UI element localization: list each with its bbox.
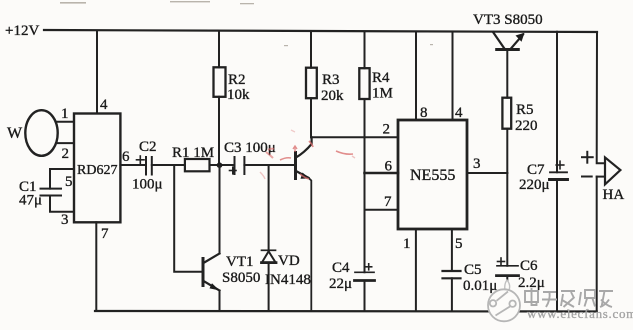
- wire: NE555 pin3 lead: [467, 172, 507, 174]
- +12V supply rail: [44, 30, 597, 32]
- wire: rail to R3: [310, 32, 312, 68]
- svg-text:7: 7: [384, 194, 392, 210]
- svg-text:C4: C4: [332, 260, 350, 276]
- svg-text:47μ: 47μ: [19, 193, 42, 209]
- svg-text:C7: C7: [527, 162, 545, 178]
- svg-text:VD: VD: [278, 253, 300, 269]
- plus mark HA: [582, 156, 593, 158]
- transistor VT2 (no label): [294, 153, 297, 179]
- resistor R2 10k: [214, 67, 226, 97]
- svg-text:R1 1M: R1 1M: [172, 145, 214, 161]
- speaker HA: [597, 176, 605, 178]
- svg-text:7: 7: [101, 226, 109, 242]
- watermark logo circle: [488, 280, 520, 321]
- resistor R4 1M: [359, 68, 369, 99]
- red annotation marks near VT2: [260, 130, 355, 179]
- plus mark C4: [366, 266, 372, 268]
- svg-text:1M: 1M: [372, 86, 393, 102]
- svg-text:+12V: +12V: [5, 23, 39, 39]
- transistor VT1 S8050: [202, 259, 205, 286]
- wire: R2 to signal junction: [218, 97, 220, 165]
- node junction R1/R2/C3/VT1: [217, 162, 223, 168]
- svg-text:IN4148: IN4148: [265, 272, 311, 288]
- scan specks: [60, 1, 433, 46]
- svg-text:4: 4: [100, 97, 108, 113]
- svg-text:HA: HA: [603, 187, 625, 203]
- wire: rail to R4: [364, 32, 366, 69]
- svg-text:R4: R4: [372, 70, 390, 86]
- resistor R3 20k: [306, 68, 317, 99]
- capacitor C6 2.2u: [497, 265, 518, 267]
- svg-text:1: 1: [61, 106, 69, 122]
- svg-text:W: W: [7, 125, 23, 142]
- wire: rail to C7: [556, 32, 558, 173]
- plus mark C3: [230, 170, 237, 172]
- wire: tap down to VT1 base: [174, 165, 201, 272]
- IC U2 NE555: [398, 120, 467, 229]
- watermark text elecfans: [525, 288, 613, 307]
- svg-text:22μ: 22μ: [329, 276, 352, 292]
- svg-text:100μ: 100μ: [132, 177, 163, 193]
- wire: NE555 pin1 to ground: [415, 229, 417, 311]
- microphone W: [25, 110, 57, 156]
- plus mark C7: [556, 164, 564, 166]
- svg-text:NE555: NE555: [410, 167, 455, 184]
- wire: NE555 pin5 to C5: [451, 229, 453, 271]
- svg-text:5: 5: [455, 236, 463, 252]
- svg-text:R5: R5: [516, 102, 534, 118]
- svg-text:5: 5: [65, 174, 73, 190]
- IC U1 RD627: [74, 114, 120, 223]
- svg-text:220: 220: [515, 118, 538, 134]
- svg-text:RD627: RD627: [77, 163, 117, 178]
- svg-text:6: 6: [385, 159, 393, 175]
- capacitor C2 100u: [145, 157, 147, 175]
- wire: RD627 pin6 to C2: [120, 164, 146, 166]
- svg-text:20k: 20k: [321, 88, 344, 104]
- svg-text:2: 2: [383, 122, 391, 138]
- svg-text:10k: 10k: [227, 87, 250, 103]
- transistor VT3 S8050: [493, 32, 504, 48]
- svg-text:8: 8: [420, 105, 428, 121]
- wire: rail to NE555 pin4: [452, 32, 454, 120]
- svg-text:R3: R3: [322, 72, 340, 88]
- svg-text:220μ: 220μ: [519, 177, 550, 193]
- svg-text:C6: C6: [520, 258, 538, 274]
- svg-text:C5: C5: [464, 262, 482, 278]
- svg-text:R2: R2: [228, 72, 246, 88]
- svg-text:0.01μ: 0.01μ: [463, 278, 497, 294]
- wire: rail to HA plus: [597, 32, 605, 163]
- wire: C2 to R1: [152, 164, 185, 166]
- svg-text:1: 1: [403, 236, 411, 252]
- capacitor C1 47u: [50, 169, 74, 189]
- svg-text:3: 3: [473, 156, 481, 172]
- minus mark HA: [582, 176, 592, 178]
- wire: rail to NE555 pin8: [415, 32, 417, 120]
- wire: NE555 pin6 lead: [365, 172, 399, 175]
- svg-text:www.elecfans.com: www.elecfans.com: [527, 306, 633, 321]
- wire: rail to RD627 pin4: [96, 31, 98, 114]
- svg-text:VT3 S8050: VT3 S8050: [473, 12, 543, 28]
- plus mark C2: [137, 159, 145, 161]
- svg-text:VT1: VT1: [226, 254, 254, 270]
- capacitor C4 22u: [355, 271, 374, 273]
- capacitor C3 100u: [234, 157, 236, 174]
- svg-text:C2: C2: [139, 139, 157, 155]
- svg-text:2: 2: [62, 146, 70, 162]
- resistor R5 220: [502, 98, 511, 129]
- svg-text:6: 6: [122, 149, 130, 165]
- wire: C3 to VT2 base: [244, 164, 295, 166]
- wire: R1 to C3 with junction: [210, 164, 235, 166]
- svg-text:S8050: S8050: [222, 270, 260, 286]
- capacitor C7 220u: [550, 171, 567, 173]
- wire: RD627 pin7 to ground rail: [95, 222, 97, 311]
- capacitor C5 0.01u: [443, 270, 461, 272]
- resistor R1 1M: [185, 159, 210, 171]
- ground return rail (bottom): [95, 310, 597, 313]
- wire: NE555 pin7 lead: [365, 209, 399, 211]
- plus mark C6: [498, 261, 505, 263]
- svg-text:4: 4: [455, 105, 463, 121]
- diode VD IN4148: [268, 165, 270, 250]
- wire: node to NE555 pin2: [311, 136, 398, 138]
- wire: rail to R2: [218, 31, 220, 67]
- svg-text:3: 3: [61, 212, 69, 228]
